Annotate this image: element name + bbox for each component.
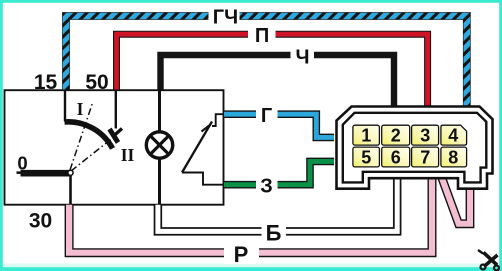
pin 1 [353,125,380,145]
label B (white wire) [262,221,287,246]
contact group: arm end tick [202,124,211,131]
pin 5 [353,147,380,167]
wire G (light blue) from contact group to connector pin 1 [224,114,334,137]
svg-text:З: З [260,176,273,198]
contact group: fixed contact hook (to blue wire G) [212,114,224,126]
pin 7 [412,147,439,167]
indicator lamp HL [146,132,172,158]
svg-text:П: П [255,25,269,47]
svg-text:1: 1 [361,126,371,146]
label G (blue wire) [256,104,278,128]
pin 6 [382,147,410,167]
svg-text:0: 0 [17,153,27,174]
svg-text:2: 2 [391,126,401,146]
pin 3 [412,125,439,145]
scissors mark [478,250,499,271]
svg-text:ГЧ: ГЧ [213,7,238,29]
connector X1 outer shell [337,107,493,189]
contact group: lower lead (to green wire Z) [182,173,224,185]
svg-text:6: 6 [391,147,401,167]
svg-text:30: 30 [29,210,52,233]
wire GCh (blue-black striped) from terminal 15 to connector pin 4 [66,16,467,109]
svg-text:4: 4 [448,126,458,146]
wire Z (green) from contact group to connector pin 5 [224,161,334,184]
wire B (white) from lamp to connector pin 6 [158,177,397,231]
lever pivot [68,170,73,175]
internal line from terminal 15 to arc contact [64,90,66,122]
internal line from terminal 50 to position II contact [115,90,117,129]
lamp lower wire to box bottom [158,158,161,204]
label R (pink wire) [224,242,259,267]
svg-text:Б: Б [266,221,282,246]
wire pivot to terminal 30 [69,173,72,204]
svg-text:Ч: Ч [295,47,309,69]
contact group: movable contact arm [182,122,212,173]
dash-dot lever position line to I [70,103,93,170]
svg-text:Р: Р [234,242,249,267]
switch lever at position 0 [21,170,70,177]
svg-text:7: 7 [420,147,430,167]
svg-text:Г: Г [261,105,272,127]
label GCh on striped wire [209,5,240,29]
pin 2 [382,125,410,145]
svg-text:15: 15 [34,71,58,94]
pin 8 [441,147,467,167]
wire P (red) from terminal 50 to connector pin 3 [117,34,428,106]
label Ch (black wire) [291,45,315,69]
svg-text:8: 8 [448,147,458,167]
svg-text:3: 3 [420,126,430,146]
label 0 [17,153,30,174]
label Z (green wire) [256,174,278,198]
wire Ch (black) from lamp to connector pin 2 [161,55,395,106]
label P (red wire) [248,24,276,47]
contact arc plate (position I to II) [65,122,113,149]
svg-text:I: I [77,99,84,119]
wire R (pink) from terminal 30 to connector pin 7 [69,177,432,253]
dash-dot lever position line to II [71,137,115,172]
position II contact wedge [110,129,123,143]
pin 4 [441,125,467,145]
svg-text:50: 50 [85,71,108,94]
indicator lamp HL wire from terminal (black wire top) [158,90,161,132]
ignition switch box S1 [5,90,224,205]
pink jumper loop pin 7 to pin 8 [442,177,471,224]
svg-text:II: II [121,145,135,165]
svg-text:5: 5 [361,147,371,167]
connector X1 inner shell [343,113,487,183]
